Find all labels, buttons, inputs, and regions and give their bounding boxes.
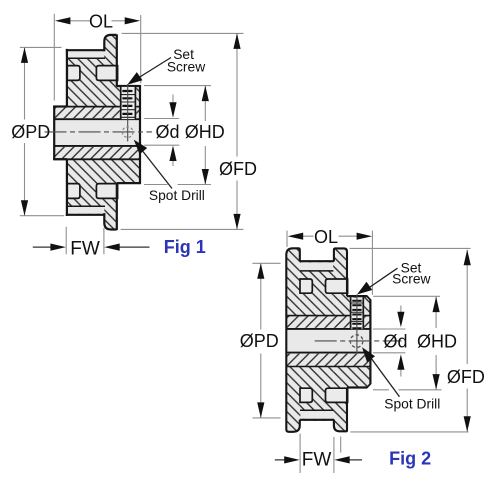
set screw S2 body: [350, 298, 364, 329]
set screw right border: [362, 297, 364, 329]
FW arrow left: [284, 456, 300, 463]
PD extension line bottom: [252, 417, 280, 419]
left flange F2L (hatched): [286, 248, 300, 431]
svg-text:Screw: Screw: [392, 271, 430, 286]
right flange outline: [334, 248, 347, 431]
OL extension line left: [286, 231, 288, 247]
OL dimension line: [68, 20, 127, 22]
d arrow up: [397, 354, 404, 370]
svg-text:ØPD: ØPD: [240, 331, 279, 351]
tooth land strip bottom: [300, 411, 333, 419]
set screw left border: [120, 87, 122, 120]
svg-text:Fig 1: Fig 1: [164, 237, 206, 257]
spot drill leader arrowhead: [134, 140, 147, 155]
set screw axis centerline: [127, 84, 129, 142]
hub bottom edge: [347, 386, 367, 388]
PD dimension line: [24, 47, 26, 215]
HD arrow down: [202, 169, 209, 185]
FW extension line left: [299, 434, 301, 473]
spot drill circle: [350, 335, 363, 348]
FD extension line top: [350, 247, 471, 249]
d dimension line top: [172, 95, 174, 105]
svg-text:ØPD: ØPD: [11, 122, 50, 142]
HD dimension line: [204, 86, 206, 185]
PD arrow down: [21, 200, 28, 216]
d extension line bottom: [144, 144, 179, 146]
hub top edge: [347, 295, 367, 297]
set screw leader arrowhead: [127, 72, 142, 85]
OL arrow left: [55, 17, 71, 24]
set screw thread crests: [351, 303, 364, 321]
FD dimension line: [236, 33, 238, 229]
body top edge: [66, 49, 105, 51]
right flange F2R (hatched): [333, 248, 347, 431]
FW extension line right: [103, 228, 105, 254]
tooth notch top-right: [326, 279, 348, 293]
hub core band (opposite hatch): [287, 316, 370, 367]
FW arrow left: [50, 244, 66, 251]
svg-text:Spot Drill: Spot Drill: [384, 397, 440, 412]
bore top edge: [287, 328, 370, 330]
OL arrow right: [125, 17, 141, 24]
hub right edge: [369, 300, 371, 384]
tooth notch top-right: [96, 66, 117, 81]
d extension line top: [373, 328, 406, 330]
hub H2 (hatched): [348, 296, 371, 387]
FW extension line right: [333, 437, 335, 473]
svg-text:Ød: Ød: [383, 331, 407, 351]
FD extension line bottom: [350, 431, 468, 433]
set screw leader line: [139, 58, 171, 78]
d arrow down: [169, 102, 176, 118]
hub core band (opposite hatch): [54, 107, 140, 160]
hub bottom-right chamfer: [366, 383, 371, 388]
OL extension line right: [371, 231, 373, 295]
FW arrow right: [334, 456, 350, 463]
set screw leader arrowhead: [357, 282, 372, 295]
d arrow down: [397, 312, 404, 328]
svg-text:Screw: Screw: [167, 60, 205, 75]
flange bottom outline: [104, 213, 116, 229]
tooth land line bottom: [68, 205, 105, 207]
svg-text:ØHD: ØHD: [417, 331, 457, 351]
FW extension line left: [65, 227, 67, 254]
OL extension line left: [53, 14, 55, 101]
spot drill leader line: [143, 152, 172, 189]
d arrow up: [169, 146, 176, 162]
set screw thread roots: [122, 91, 132, 114]
boss top edge: [53, 105, 67, 107]
pulley centerline: [315, 340, 402, 342]
PD extension line top: [252, 262, 280, 264]
HD extension line top: [373, 295, 440, 297]
tooth notch bottom-right: [96, 184, 117, 199]
left flange outline: [286, 248, 300, 431]
set screw left border: [350, 297, 352, 329]
FW dimension tails: [275, 459, 362, 461]
FD extension line bottom: [121, 228, 244, 230]
flange F1 bottom piece: [104, 214, 117, 230]
d dimension line top: [400, 306, 402, 314]
body bottom edge: [300, 419, 334, 421]
tooth notch bottom-left: [67, 184, 80, 199]
FW arrow right: [104, 244, 120, 251]
svg-text:Spot Drill: Spot Drill: [149, 188, 205, 203]
tooth land strip top: [68, 51, 105, 58]
body top edge: [300, 260, 334, 262]
FW dimension tails: [33, 246, 150, 248]
spot drill leader arrowhead: [362, 347, 375, 362]
svg-text:OL: OL: [314, 227, 338, 247]
core band top boundary: [53, 106, 139, 108]
hub bottom edge: [117, 182, 140, 184]
tooth land line top: [68, 57, 105, 59]
PD arrow up: [257, 263, 264, 279]
OL arrow left: [288, 233, 304, 240]
hub H1 (hatched): [117, 85, 141, 183]
flange F1 top piece: [104, 35, 117, 51]
boss bottom edge: [53, 158, 67, 160]
hub right edge: [139, 85, 141, 184]
HD arrow up: [433, 297, 440, 313]
OL dimension line: [301, 235, 359, 237]
d dimension line bottom: [172, 160, 174, 167]
FD arrow up: [464, 250, 471, 266]
set screw axis centerline: [356, 295, 358, 354]
svg-text:OL: OL: [89, 12, 113, 32]
tooth notch bottom-left: [300, 388, 312, 402]
svg-text:ØFD: ØFD: [219, 159, 257, 179]
pulley P2 body (hatched): [300, 260, 333, 421]
FD arrow up: [233, 33, 240, 49]
FD arrow down: [233, 214, 240, 230]
core band top boundary: [287, 315, 370, 317]
HD arrow up: [202, 86, 209, 102]
svg-text:Ød: Ød: [155, 122, 179, 142]
OL arrow right: [357, 233, 373, 240]
PD extension line top: [20, 46, 62, 48]
set screw leader line: [369, 268, 398, 288]
svg-text:Fig 2: Fig 2: [389, 448, 431, 468]
tooth land line top: [300, 270, 333, 272]
svg-text:ØHD: ØHD: [185, 122, 225, 142]
svg-text:FW: FW: [302, 450, 332, 471]
PD dimension line: [260, 263, 262, 418]
FW extension stub: [340, 437, 342, 453]
PD arrow down: [257, 402, 264, 418]
FD extension line top: [122, 32, 244, 34]
core band bottom boundary: [53, 158, 139, 160]
tooth notch top-left: [67, 66, 80, 81]
boss left edge: [53, 106, 55, 160]
tooth land line bottom: [300, 409, 333, 411]
spot drill circle: [122, 127, 133, 138]
set screw right border: [134, 87, 136, 120]
d extension line bottom: [373, 352, 406, 354]
tooth notch top-left: [300, 279, 312, 293]
flange top outline: [104, 35, 116, 51]
hub top edge: [117, 85, 140, 87]
PD arrow up: [21, 47, 28, 63]
set screw thread crests: [121, 95, 136, 118]
set screw thread roots: [352, 301, 361, 329]
body left edge: [66, 49, 68, 216]
HD dimension line: [435, 297, 437, 390]
HD arrow down: [433, 374, 440, 390]
PD extension line bottom: [20, 215, 64, 217]
body/flange right edge: [116, 34, 118, 230]
set screw S1 body: [120, 87, 136, 119]
svg-text:FW: FW: [70, 238, 100, 259]
tooth notch bottom-right: [326, 388, 348, 402]
FD dimension line: [466, 250, 468, 432]
pulley P1 body (toothed section, hatched): [66, 50, 117, 215]
OL extension line right: [140, 15, 142, 84]
d extension line top: [144, 118, 179, 120]
bore bottom edge: [54, 145, 140, 147]
bore bottom edge: [287, 352, 370, 354]
bore B1: [54, 118, 140, 147]
spot drill leader line: [371, 358, 400, 397]
svg-text:ØFD: ØFD: [447, 367, 485, 387]
FD arrow down: [464, 416, 471, 432]
HD extension line top: [144, 85, 211, 87]
bore top edge: [54, 118, 140, 120]
hub top-right chamfer: [367, 296, 371, 301]
pulley centerline: [45, 131, 153, 133]
tooth land strip bottom: [68, 207, 105, 214]
HD extension line bottom: [373, 389, 442, 391]
bore B2: [287, 328, 370, 354]
tooth land strip top: [300, 262, 333, 270]
d dimension line bottom: [400, 368, 402, 376]
core band bottom boundary: [287, 366, 370, 368]
body bottom edge: [66, 214, 105, 216]
HD extension line bottom: [144, 184, 211, 186]
